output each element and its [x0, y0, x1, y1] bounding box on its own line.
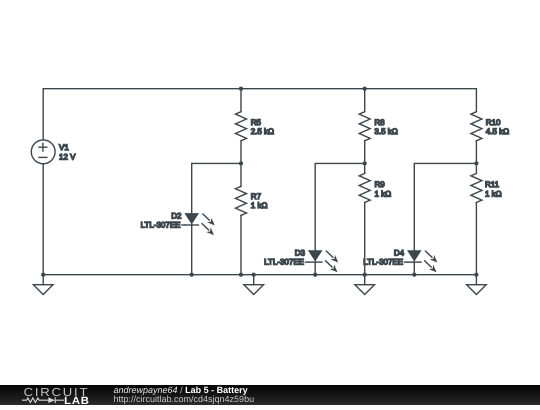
svg-text:1 kΩ: 1 kΩ: [375, 189, 392, 198]
wire node R5-R7 to D2: [192, 163, 241, 274]
label R5 value 2.5 kΩ: [251, 118, 274, 136]
CircuitLab logo: [0, 385, 110, 406]
label R7 value 1 kΩ: [251, 192, 268, 210]
voltage source V1: [31, 140, 55, 164]
label D3 LTL-307EE: [264, 249, 305, 267]
svg-text:LTL-307EE: LTL-307EE: [141, 221, 181, 230]
label D4 LTL-307EE: [363, 249, 404, 267]
footer url text: [114, 394, 255, 404]
svg-text:V1: V1: [59, 143, 69, 152]
label R10 value 4.5 kΩ: [486, 118, 509, 136]
svg-text:R10: R10: [486, 118, 501, 127]
label V1 value 12 V: [59, 143, 76, 162]
resistor R5: [236, 89, 247, 164]
ground 4: [467, 275, 487, 295]
LED D3: [305, 251, 338, 273]
svg-text:LTL-307EE: LTL-307EE: [264, 258, 304, 267]
LED D2: [182, 214, 215, 236]
resistor R8: [359, 89, 370, 164]
label R9 value 1 kΩ: [375, 180, 392, 198]
footer bar: [0, 385, 540, 406]
ground 2: [244, 275, 264, 295]
svg-text:D4: D4: [394, 249, 405, 258]
svg-text:D3: D3: [295, 249, 306, 258]
svg-text:1 kΩ: 1 kΩ: [251, 201, 268, 210]
ground 1: [33, 275, 53, 295]
wire right vertical top lead: [475, 89, 477, 112]
junction dots top rail: [239, 87, 367, 91]
svg-text:4.5 kΩ: 4.5 kΩ: [486, 127, 509, 136]
resistor R11: [471, 163, 482, 274]
wire V1 bottom lead: [42, 164, 44, 275]
label R11 value 1 kΩ: [485, 180, 502, 198]
junction dots bottom rail: [41, 273, 478, 277]
wire bottom rail: [43, 274, 476, 276]
label D2 LTL-307EE: [141, 211, 182, 229]
svg-text:R5: R5: [251, 118, 262, 127]
svg-text:LAB: LAB: [64, 395, 89, 406]
svg-text:R11: R11: [485, 180, 500, 189]
label R8 value 3.5 kΩ: [374, 118, 397, 136]
svg-text:R7: R7: [251, 192, 262, 201]
junction dots mid nodes: [239, 161, 479, 165]
wire top rail: [43, 88, 476, 90]
svg-text:2.5 kΩ: 2.5 kΩ: [251, 127, 274, 136]
resistor R7: [236, 163, 247, 274]
svg-text:R9: R9: [375, 180, 386, 189]
wire node R8-R9 to D3: [315, 163, 365, 274]
svg-text:LTL-307EE: LTL-307EE: [363, 258, 403, 267]
LED D4: [405, 251, 438, 273]
svg-text:12 V: 12 V: [59, 153, 76, 162]
resistor R9: [359, 163, 370, 274]
resistor R10: [471, 112, 482, 164]
wire node R10-R11 to D4: [414, 163, 476, 274]
svg-text:3.5 kΩ: 3.5 kΩ: [374, 127, 397, 136]
wire left vertical V1 top lead: [42, 89, 44, 140]
svg-text:D2: D2: [171, 211, 182, 220]
footer title text: [114, 385, 248, 395]
svg-text:R8: R8: [374, 118, 385, 127]
svg-text:1 kΩ: 1 kΩ: [485, 189, 502, 198]
ground 3: [355, 275, 375, 295]
